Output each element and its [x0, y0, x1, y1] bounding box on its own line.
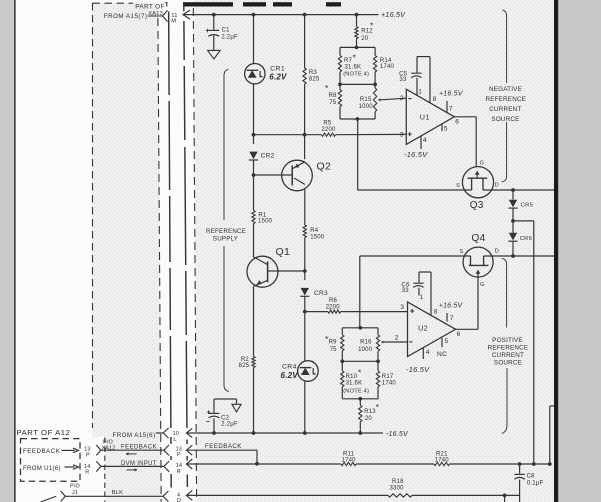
svg-text:1500: 1500 — [258, 219, 273, 225]
wire box mid — [339, 72, 341, 90]
node — [338, 83, 342, 87]
svg-text:-16.5V: -16.5V — [404, 150, 428, 159]
svg-text:2.2μF: 2.2μF — [221, 422, 238, 428]
svg-text:CR5: CR5 — [521, 202, 533, 208]
svg-text:S: S — [459, 249, 463, 255]
resistor R4 — [303, 225, 306, 238]
resistor R6 2200 — [328, 310, 341, 313]
svg-text:C8: C8 — [527, 473, 536, 479]
node Q1 base junction — [303, 269, 307, 273]
svg-text:6: 6 — [455, 119, 459, 126]
svg-text:*: * — [358, 368, 362, 378]
svg-text:3: 3 — [400, 131, 404, 138]
svg-text:U1: U1 — [420, 113, 430, 122]
wire — [304, 312, 306, 361]
svg-text:BLK: BLK — [112, 490, 123, 496]
svg-text:U2: U2 — [418, 324, 428, 333]
resistor R17 1740 — [376, 371, 379, 387]
svg-text:P: P — [177, 452, 181, 458]
resistor R21 1740 — [434, 462, 450, 465]
svg-text:1: 1 — [418, 88, 422, 95]
svg-text:33: 33 — [399, 77, 407, 83]
wire to edge — [549, 406, 551, 464]
wiper arrow into R15 — [381, 98, 406, 100]
svg-text:7: 7 — [450, 315, 454, 322]
+16.5V rail arrowhead — [183, 10, 190, 19]
svg-text:R: R — [177, 469, 181, 475]
svg-text:5: 5 — [444, 126, 448, 133]
svg-text:R2: R2 — [241, 357, 250, 363]
node Q4 drain — [511, 254, 515, 258]
wire feedback — [186, 449, 257, 451]
svg-text:R10: R10 — [346, 374, 358, 380]
U1 output pin 6 — [454, 116, 476, 118]
node — [356, 117, 360, 121]
U1 pin 4 -16.5V — [420, 136, 422, 149]
svg-text:FROM A15(6): FROM A15(6) — [112, 432, 155, 439]
svg-text:R14: R14 — [380, 58, 392, 64]
resistor R10 31.6K — [341, 371, 344, 387]
wire — [253, 175, 255, 211]
U2 pin 5 NC — [441, 338, 443, 347]
U1 +16.5V pin 7 — [446, 101, 448, 113]
svg-text:CR6: CR6 — [520, 236, 532, 242]
svg-text:J1: J1 — [72, 490, 78, 496]
resistor R8 75 — [338, 90, 341, 107]
resistor R13 20 — [359, 399, 361, 406]
svg-text:6: 6 — [457, 331, 461, 338]
svg-text:G: G — [480, 160, 485, 166]
wire — [412, 494, 520, 496]
wires box bottom — [341, 387, 343, 399]
svg-text:825: 825 — [239, 363, 250, 369]
wire — [253, 224, 255, 258]
svg-text:-16.5V: -16.5V — [386, 431, 409, 438]
svg-text:+: + — [205, 26, 210, 35]
svg-text:P: P — [86, 452, 90, 458]
diode CR5 — [509, 200, 517, 208]
wire Q4 drain — [484, 255, 554, 257]
svg-text:REFERENCE: REFERENCE — [485, 96, 526, 103]
wire box top — [340, 46, 375, 48]
svg-text:NEGATIVE: NEGATIVE — [489, 86, 522, 93]
svg-text:8: 8 — [434, 308, 438, 315]
resistor R11 1740 — [341, 462, 356, 465]
svg-text:REFERENCE: REFERENCE — [206, 228, 246, 235]
svg-text:PART OF A12: PART OF A12 — [17, 428, 71, 437]
svg-text:1740: 1740 — [380, 64, 395, 70]
diode CR3 — [301, 288, 309, 296]
svg-text:FEEDBACK: FEEDBACK — [205, 443, 242, 450]
svg-text:0.1μF: 0.1μF — [527, 481, 544, 487]
svg-text:7: 7 — [449, 106, 453, 113]
U2 output pin 6 — [456, 328, 478, 330]
node — [532, 462, 536, 466]
svg-text:R4: R4 — [310, 228, 319, 234]
U2 +16.5V pin 7 — [446, 313, 448, 322]
diode CR2 — [249, 152, 257, 160]
svg-text:R13: R13 — [364, 409, 376, 415]
svg-text:2200: 2200 — [321, 127, 336, 133]
svg-text:M: M — [171, 19, 176, 25]
svg-text:1: 1 — [420, 294, 424, 301]
node box top — [355, 46, 359, 50]
svg-text:C1: C1 — [222, 27, 231, 33]
svg-text:R17: R17 — [382, 374, 394, 380]
svg-text:NC: NC — [437, 351, 447, 358]
node — [376, 359, 380, 363]
wire — [304, 238, 306, 272]
svg-text:31.6K: 31.6K — [345, 65, 362, 71]
svg-text:*: * — [370, 21, 374, 31]
svg-text:1740: 1740 — [342, 457, 357, 463]
svg-text:2.2μF: 2.2μF — [221, 35, 238, 41]
wire — [304, 296, 306, 311]
mosfet Q3 — [462, 167, 493, 198]
wire Q4 source — [360, 255, 471, 257]
svg-text:31.6K: 31.6K — [346, 381, 363, 387]
svg-text:DVM INPUT: DVM INPUT — [121, 461, 157, 467]
svg-text:POSITIVE: POSITIVE — [492, 337, 523, 344]
svg-text:*: * — [376, 402, 380, 412]
svg-text:*: * — [325, 83, 329, 93]
resistor R12 20 — [356, 15, 358, 27]
svg-text:2: 2 — [395, 335, 399, 342]
svg-text:SOURCE: SOURCE — [494, 359, 522, 366]
svg-text:75: 75 — [330, 347, 338, 353]
svg-text:1740: 1740 — [382, 381, 397, 387]
svg-text:Q1: Q1 — [276, 246, 291, 258]
wire -16.5V rail — [186, 428, 192, 437]
bracket negative reference current source — [502, 10, 506, 83]
svg-text:Q2: Q2 — [317, 161, 332, 173]
resistor R18 3300 — [388, 494, 412, 497]
svg-text:FEEDBACK: FEEDBACK — [121, 445, 157, 451]
wire — [512, 241, 514, 256]
bracket positive reference current source — [502, 258, 507, 327]
svg-text:+16.5V: +16.5V — [381, 10, 406, 19]
svg-text:FEEDBACK: FEEDBACK — [23, 448, 61, 455]
svg-text:4: 4 — [426, 349, 430, 356]
svg-text:CR2: CR2 — [261, 152, 275, 159]
node — [548, 462, 552, 466]
svg-text:D: D — [495, 183, 499, 189]
mosfet Q4 — [463, 247, 493, 277]
svg-text:-16.5V: -16.5V — [406, 365, 430, 374]
wire Q2 emitter to R4 — [304, 189, 306, 225]
capacitor C8 0.1uF — [519, 464, 521, 474]
bracket reference supply — [224, 69, 228, 220]
wire — [356, 463, 434, 465]
wire +16.5V rail — [183, 14, 379, 16]
wire ground return — [186, 494, 388, 496]
svg-text:1000: 1000 — [359, 104, 374, 110]
svg-text:20: 20 — [361, 36, 369, 42]
svg-text:R6: R6 — [329, 298, 338, 304]
node — [373, 83, 377, 87]
svg-text:6.2V: 6.2V — [281, 371, 299, 380]
U2 pin 4 -16.5V — [422, 348, 424, 359]
svg-text:5: 5 — [445, 338, 449, 345]
resistor R1 — [252, 211, 255, 224]
wire — [304, 381, 306, 433]
wire — [512, 208, 514, 221]
svg-text:R1: R1 — [258, 212, 267, 218]
node R5 tap — [252, 133, 256, 137]
svg-text:FROM A15(7): FROM A15(7) — [104, 13, 148, 20]
wire Q3 drain — [483, 189, 554, 191]
wire box top — [342, 327, 378, 329]
svg-text:D: D — [495, 249, 499, 255]
resistor R9 75 — [341, 335, 344, 351]
wire R6 — [305, 311, 328, 313]
wire — [512, 190, 514, 200]
svg-text:8: 8 — [433, 96, 437, 103]
svg-text:2200: 2200 — [326, 304, 341, 310]
resistor R14 1740 — [373, 55, 376, 72]
wire — [304, 84, 306, 135]
resistor R5 2200 — [322, 133, 336, 136]
wiper arrow into R16 — [384, 341, 408, 343]
svg-text:G: G — [480, 282, 485, 288]
wire — [336, 133, 407, 135]
op-amp U1 — [406, 89, 454, 144]
svg-text:PART OF: PART OF — [135, 3, 165, 10]
node — [340, 359, 344, 363]
op-amp U2 — [408, 302, 456, 357]
wires box mid — [341, 351, 343, 371]
svg-text:D: D — [177, 498, 181, 502]
resistor R3 — [303, 68, 306, 84]
diode CR6 — [509, 233, 517, 241]
ground (C2) — [236, 399, 238, 404]
wire — [253, 160, 255, 175]
svg-text:P/O: P/O — [70, 484, 80, 490]
node — [503, 494, 507, 498]
resistor R16 1000 (pot) — [376, 335, 379, 351]
svg-text:Q4: Q4 — [472, 233, 486, 244]
svg-text:(NOTE 4): (NOTE 4) — [343, 389, 369, 395]
svg-text:R9: R9 — [329, 340, 338, 346]
connector J1 BLK wire — [41, 496, 57, 502]
capacitor C6 33 + comp loop — [418, 288, 420, 296]
wire — [341, 311, 408, 313]
svg-text:REFERENCE: REFERENCE — [488, 344, 529, 351]
wire Q3 source — [357, 119, 359, 190]
svg-text:+16.5V: +16.5V — [439, 90, 464, 97]
svg-text:1740: 1740 — [435, 457, 450, 463]
svg-text:L: L — [173, 437, 176, 443]
svg-text:4: 4 — [423, 137, 427, 144]
capacitor C2 — [214, 398, 237, 400]
svg-text:R18: R18 — [392, 479, 404, 485]
resistor R2 — [252, 357, 255, 368]
wire — [253, 135, 255, 144]
zener CR1 6.2V — [245, 63, 265, 83]
svg-text:825: 825 — [309, 76, 320, 82]
svg-text:3: 3 — [400, 304, 404, 311]
wire dvm/feedback line — [186, 463, 341, 465]
wire U1 out to Q3 gate — [475, 117, 477, 167]
node CR5/CR6 junction — [511, 219, 515, 223]
svg-text:33: 33 — [402, 288, 410, 294]
svg-text:20: 20 — [365, 416, 373, 422]
svg-text:FROM U1(6): FROM U1(6) — [23, 465, 61, 472]
svg-text:Q3: Q3 — [470, 200, 484, 211]
wire CR1 branch — [253, 15, 255, 65]
node feedback join — [255, 462, 259, 466]
svg-text:CURRENT: CURRENT — [492, 352, 524, 359]
U1 pin 5 stub — [441, 124, 443, 131]
wire box bottom — [339, 107, 341, 120]
node Q2 base tap — [252, 173, 256, 177]
svg-text:−: − — [206, 419, 210, 426]
wire — [359, 422, 361, 433]
wire R5 feedback — [254, 134, 322, 136]
node — [511, 188, 515, 192]
svg-text:R8: R8 — [329, 93, 338, 99]
svg-text:CURRENT: CURRENT — [489, 106, 521, 113]
wire — [512, 221, 514, 233]
wire branch to output — [513, 220, 534, 222]
svg-text:SUPPLY: SUPPLY — [213, 235, 238, 242]
wire — [253, 286, 255, 356]
svg-text:75: 75 — [329, 100, 337, 106]
svg-text:R7: R7 — [344, 58, 353, 64]
node C8 tap — [518, 462, 522, 466]
wire — [253, 84, 255, 135]
svg-text:1500: 1500 — [310, 234, 325, 240]
svg-text:CR3: CR3 — [314, 290, 328, 297]
wire — [253, 368, 255, 434]
capacitor C1 — [213, 15, 215, 30]
wire R3 branch — [304, 15, 306, 68]
svg-text:R16: R16 — [360, 339, 372, 345]
svg-text:R5: R5 — [323, 120, 332, 126]
svg-text:(NOTE 4): (NOTE 4) — [343, 71, 369, 77]
node R6 tap — [303, 310, 307, 314]
svg-text:R: R — [85, 469, 89, 475]
svg-text:+: + — [206, 408, 211, 417]
ground (C1) — [208, 50, 221, 59]
svg-text:2: 2 — [400, 95, 404, 102]
svg-text:+16.5V: +16.5V — [439, 302, 464, 309]
transistor Q1 — [247, 256, 278, 287]
resistor R15 1000 (pot) — [373, 88, 376, 112]
wire — [304, 271, 306, 280]
wire — [450, 463, 550, 465]
svg-text:SOURCE: SOURCE — [491, 116, 519, 123]
node R5/R3/Q2 — [303, 133, 307, 137]
svg-text:3300: 3300 — [390, 486, 405, 492]
transistor Q2 — [282, 160, 313, 191]
capacitor C5 33 + comp loop pins 1-8 — [416, 78, 418, 96]
node — [358, 397, 362, 401]
svg-text:CR4: CR4 — [282, 364, 297, 371]
svg-text:1000: 1000 — [358, 347, 373, 353]
svg-text:S: S — [456, 183, 460, 189]
resistor R7 31.6K — [338, 55, 341, 72]
svg-text:R15: R15 — [360, 97, 372, 103]
svg-text:*: * — [353, 52, 357, 62]
zener CR4 6.2V — [298, 361, 319, 382]
node box top — [358, 326, 362, 330]
svg-text:R3: R3 — [309, 70, 318, 76]
svg-text:6.2V: 6.2V — [269, 72, 287, 81]
